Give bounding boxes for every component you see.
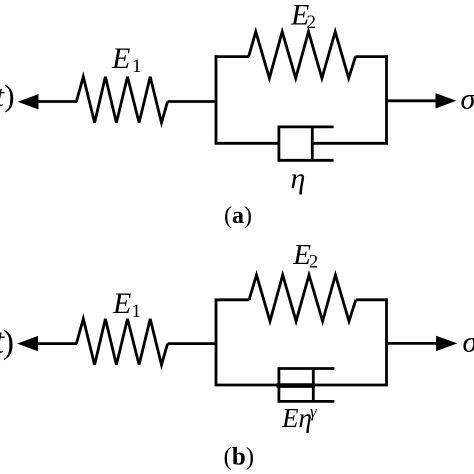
svg-text:): )	[4, 78, 14, 113]
spring E1 (b)	[76, 319, 167, 365]
wire piston rod (b)	[313, 384, 388, 387]
svg-text:Eη: Eη	[281, 403, 312, 433]
wire spring-to-box (b)	[168, 342, 217, 345]
abel dashpot cylinder (b)	[279, 369, 335, 402]
wire arrow-to-spring (a)	[36, 100, 77, 103]
wire arrow-to-spring (b)	[36, 342, 77, 345]
arrow right (a)	[436, 93, 457, 108]
spring E2 (b)	[249, 275, 356, 321]
svg-text:): )	[3, 324, 14, 361]
node right wall (b)	[385, 299, 388, 387]
node left wall (b)	[215, 299, 218, 387]
svg-text:E: E	[112, 287, 131, 320]
abel dashpot piston (b)	[312, 369, 315, 402]
node right wall (a)	[385, 55, 388, 144]
wire bottom-left (b)	[215, 384, 279, 387]
wire top-right (a)	[356, 55, 388, 58]
wire top-right (b)	[356, 298, 388, 301]
wire bottom-left (a)	[215, 142, 279, 145]
arrow left (a)	[18, 94, 39, 109]
svg-text:1: 1	[132, 301, 142, 322]
svg-text:2: 2	[309, 251, 319, 272]
svg-text:E: E	[111, 42, 130, 75]
wire top-left (b)	[215, 298, 250, 301]
wire output (b)	[387, 342, 441, 345]
svg-text:2: 2	[307, 12, 317, 33]
svg-text:1: 1	[132, 56, 142, 77]
svg-text:σ: σ	[461, 83, 474, 116]
arrow right (b)	[436, 336, 457, 351]
spring E1 (a)	[76, 77, 167, 123]
dashpot piston (a)	[311, 127, 314, 160]
arrow left (b)	[17, 336, 38, 351]
svg-text:(b): (b)	[224, 443, 255, 470]
wire output (a)	[387, 99, 441, 102]
wire piston rod (a)	[312, 142, 388, 145]
wire spring-to-box (a)	[168, 100, 217, 103]
node left wall (a)	[215, 55, 218, 144]
abel dashpot thick plate (b)	[277, 383, 316, 388]
spring E2 (a)	[249, 32, 356, 78]
svg-text:η: η	[291, 162, 306, 195]
wire top-left (a)	[215, 55, 249, 58]
svg-text:(a): (a)	[224, 203, 252, 229]
svg-text:σ: σ	[463, 325, 474, 358]
dashpot cylinder (a)	[279, 127, 334, 160]
